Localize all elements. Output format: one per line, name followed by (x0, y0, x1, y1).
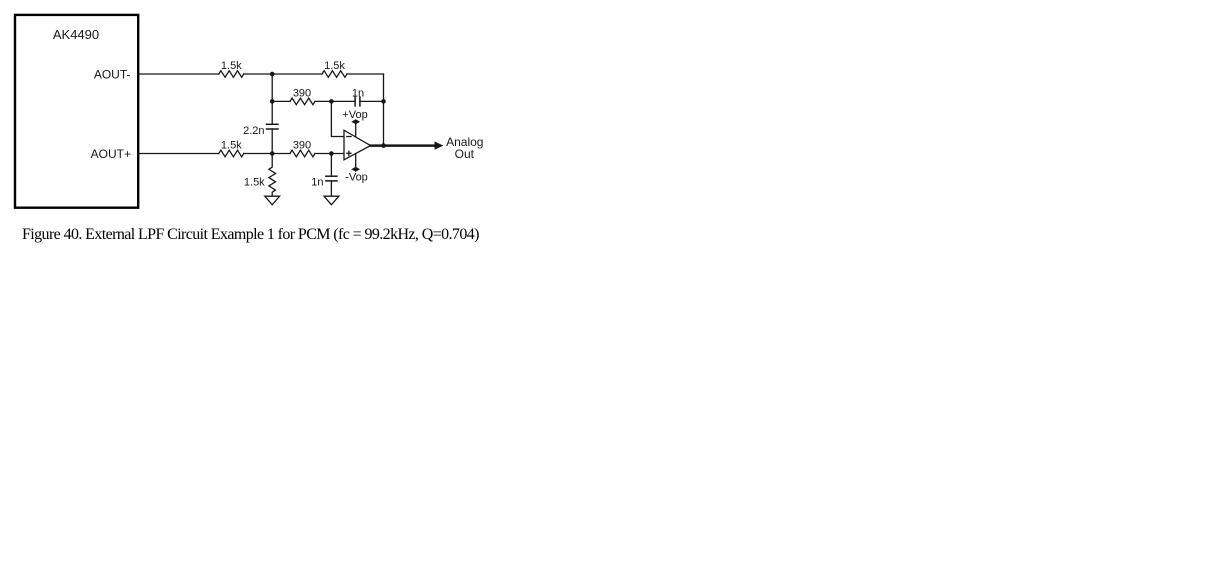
wire node A down to 390 row (271, 74, 273, 124)
node dot 390-row left junction (270, 99, 275, 104)
wire 1n cap to feedback column (360, 100, 384, 102)
wire AOUT- lead from chip to R1 (138, 73, 218, 75)
capacitor C 1n (shunt) plates (326, 175, 337, 177)
op-amp U1 negative supply wire (355, 153, 357, 169)
wire 390 lower to op-amp non-inverting input (315, 153, 344, 155)
capacitor C 1n (feedback) plates (354, 97, 356, 106)
svg-text:AK4490: AK4490 (53, 27, 99, 42)
wire 390 to node B (315, 100, 355, 102)
wire 2.2n cap to AOUT+ row (271, 129, 273, 154)
wire AOUT+ lead from chip to R (138, 153, 218, 155)
op-amp U1 positive supply wire (355, 122, 357, 137)
wire node A to feedback resistor (244, 73, 322, 75)
capacitor C 2.2n plates (267, 123, 279, 125)
resistor R 1.5k (feedback) (322, 71, 347, 78)
arrowhead analog out (435, 141, 444, 149)
svg-text:Figure 40. External LPF Circui: Figure 40. External LPF Circuit Example … (22, 226, 479, 243)
resistor R 390 (upper) (290, 98, 315, 105)
+Vop supply diamond (351, 119, 360, 124)
svg-text:1n: 1n (352, 88, 364, 100)
node dot output junction (381, 143, 386, 148)
svg-text:1.5k: 1.5k (244, 176, 265, 188)
resistor R 1.5k (AOUT- input) (219, 71, 244, 78)
svg-text:1.5k: 1.5k (324, 60, 345, 72)
node dot 1n/feedback column junction (381, 99, 386, 104)
node dot AOUT- / feedback junction (270, 72, 275, 77)
node dot 390/1n/inverting junction (329, 99, 334, 104)
op-amp U1 triangle (344, 130, 371, 160)
svg-text:390: 390 (293, 88, 311, 100)
wire op-amp output thick line to analog out arrow (371, 144, 436, 147)
svg-text:1.5k: 1.5k (221, 60, 242, 72)
wire feedback right column down to output node (383, 74, 385, 146)
wire node B down and into op-amp inverting input (331, 101, 344, 136)
svg-text:390: 390 (293, 140, 311, 152)
wire feedback top to corner (347, 73, 384, 75)
svg-text:2.2n: 2.2n (243, 125, 264, 137)
wire to 390 lower (244, 153, 290, 155)
ground symbol (left) (265, 196, 280, 205)
svg-text:1n: 1n (311, 176, 323, 188)
-Vop supply diamond (351, 167, 360, 172)
ground symbol (right) (324, 196, 339, 205)
resistor R 390 (lower) (290, 150, 315, 157)
wire 390 row from node to resistor (272, 100, 290, 102)
svg-text:+Vop: +Vop (342, 109, 367, 121)
op-amp U1 inverting pin mark (347, 136, 351, 138)
svg-text:AOUT-: AOUT- (94, 67, 131, 81)
node dot non-inverting/1n-shunt junction (329, 151, 334, 156)
node dot AOUT+ junction (270, 151, 275, 156)
svg-text:AOUT+: AOUT+ (91, 147, 131, 161)
IC box AK4490 (15, 15, 138, 208)
svg-text:1.5k: 1.5k (221, 140, 242, 152)
op-amp U1 non-inverting pin mark (347, 152, 351, 154)
svg-text:-Vop: -Vop (345, 172, 368, 184)
wire 1n shunt cap to ground (330, 181, 332, 196)
svg-text:Out: Out (455, 147, 475, 161)
resistor R 1.5k (AOUT+ input) (219, 150, 244, 157)
resistor R 1.5k (vertical to ground) (269, 154, 276, 197)
wire node C down to 1n shunt cap (330, 154, 332, 177)
